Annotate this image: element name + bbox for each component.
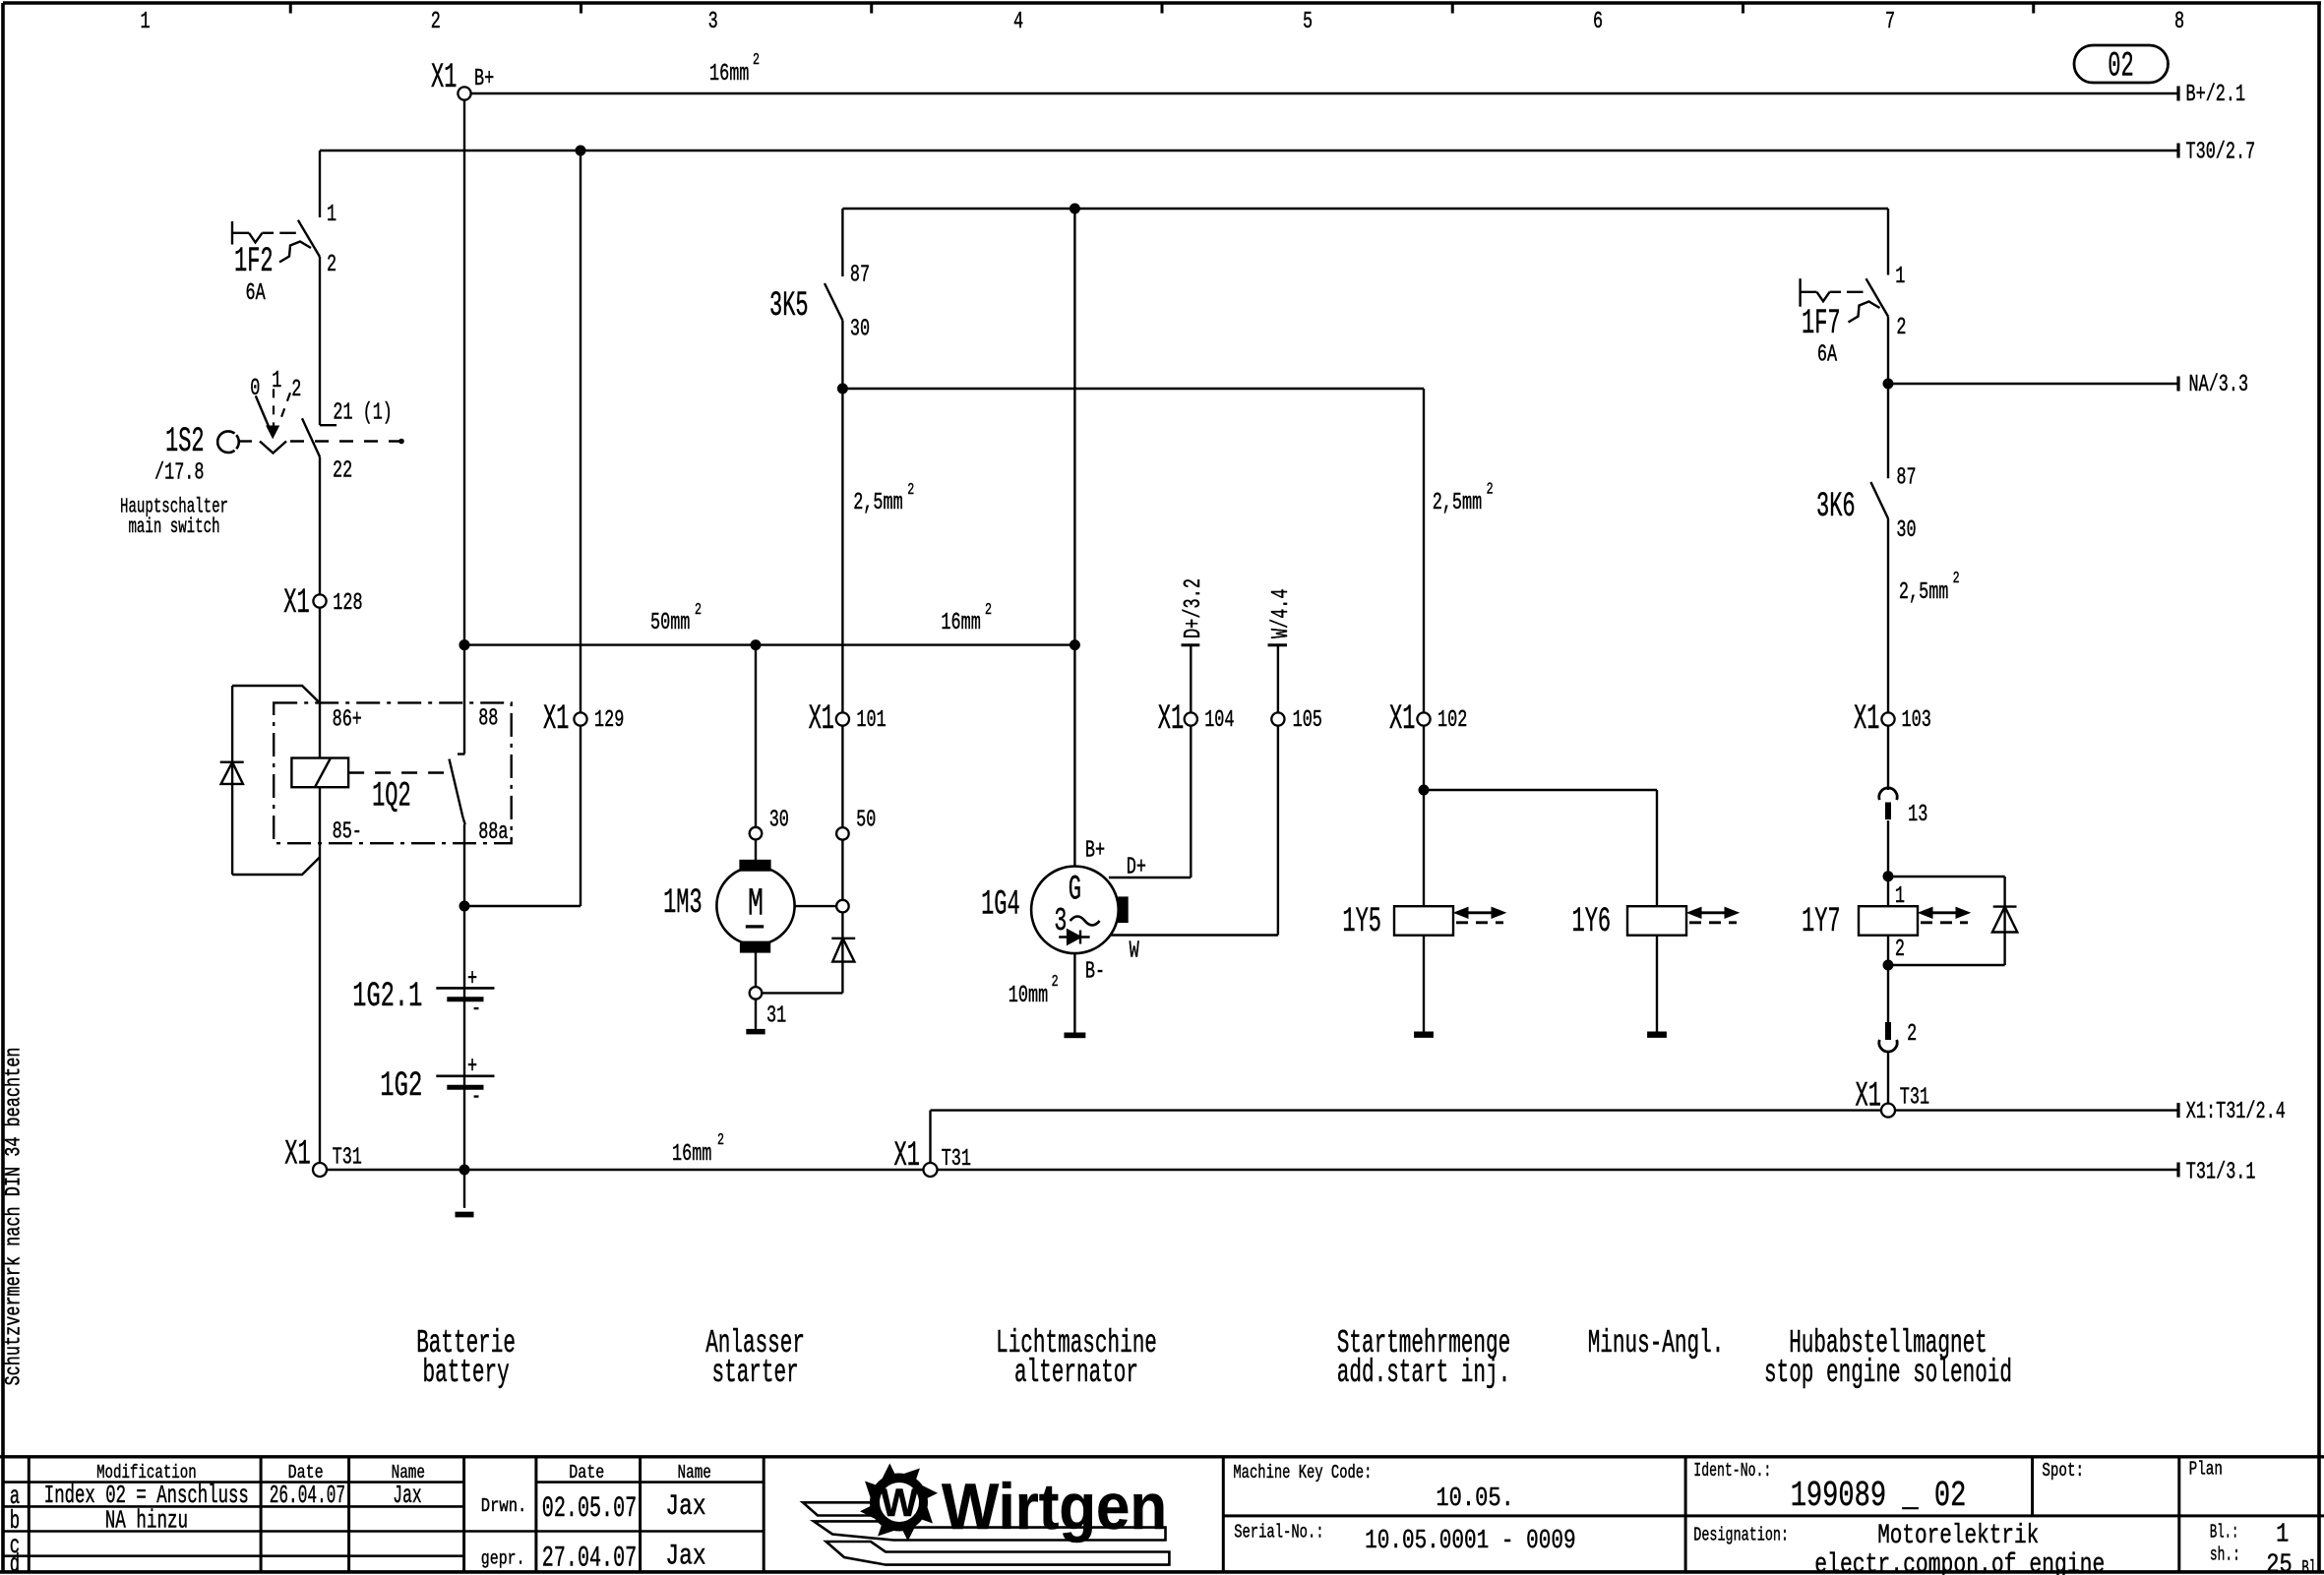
svg-text:1M3: 1M3 bbox=[663, 883, 703, 923]
svg-text:2: 2 bbox=[717, 1131, 724, 1150]
svg-text:T31: T31 bbox=[333, 1145, 362, 1172]
svg-text:d: d bbox=[10, 1549, 20, 1575]
svg-text:02.05.07: 02.05.07 bbox=[542, 1492, 637, 1526]
svg-text:50mm: 50mm bbox=[650, 610, 690, 636]
svg-text:2: 2 bbox=[1907, 1021, 1917, 1048]
svg-text:Name: Name bbox=[678, 1462, 711, 1484]
svg-text:87: 87 bbox=[1896, 465, 1916, 492]
svg-text:Drwn.: Drwn. bbox=[481, 1495, 527, 1517]
svg-text:X1: X1 bbox=[1856, 1077, 1881, 1117]
svg-text:sh.:: sh.: bbox=[2210, 1545, 2240, 1566]
svg-text:4: 4 bbox=[1013, 9, 1023, 35]
svg-text:T30/2.7: T30/2.7 bbox=[2186, 140, 2256, 166]
svg-text:6: 6 bbox=[1593, 9, 1603, 35]
svg-text:1Q2: 1Q2 bbox=[372, 776, 411, 816]
svg-text:starter: starter bbox=[712, 1355, 799, 1391]
svg-text:104: 104 bbox=[1204, 707, 1234, 734]
svg-text:1Y5: 1Y5 bbox=[1342, 902, 1381, 941]
svg-text:-: - bbox=[471, 997, 481, 1023]
svg-text:Minus-Angl.: Minus-Angl. bbox=[1588, 1325, 1725, 1362]
svg-text:129: 129 bbox=[594, 707, 624, 734]
svg-text:Bl.:: Bl.: bbox=[2301, 1557, 2324, 1575]
svg-text:31: 31 bbox=[766, 1003, 786, 1030]
svg-text:3: 3 bbox=[708, 9, 718, 35]
svg-text:2: 2 bbox=[753, 51, 760, 70]
svg-text:50: 50 bbox=[856, 808, 876, 834]
svg-text:10.05.: 10.05. bbox=[1436, 1484, 1514, 1514]
svg-text:26.04.07: 26.04.07 bbox=[270, 1481, 345, 1510]
svg-text:+: + bbox=[467, 1054, 477, 1080]
svg-text:Plan: Plan bbox=[2189, 1459, 2223, 1481]
svg-text:Wirtgen: Wirtgen bbox=[942, 1470, 1167, 1543]
svg-text:-: - bbox=[471, 1084, 481, 1111]
svg-text:1: 1 bbox=[2276, 1521, 2289, 1550]
svg-text:2: 2 bbox=[1895, 937, 1905, 963]
svg-text:gepr.: gepr. bbox=[481, 1548, 525, 1570]
svg-text:2: 2 bbox=[907, 481, 914, 500]
svg-text:1Y6: 1Y6 bbox=[1572, 902, 1612, 941]
svg-text:Motorelektrik: Motorelektrik bbox=[1877, 1521, 2039, 1551]
svg-text:X1: X1 bbox=[543, 699, 569, 739]
svg-text:0: 0 bbox=[250, 376, 260, 402]
svg-text:stop engine solenoid: stop engine solenoid bbox=[1764, 1355, 2012, 1391]
svg-text:6A: 6A bbox=[1817, 342, 1837, 369]
svg-text:D+: D+ bbox=[1127, 855, 1146, 881]
svg-text:25: 25 bbox=[2266, 1551, 2293, 1575]
svg-text:X1: X1 bbox=[431, 58, 457, 97]
svg-text:105: 105 bbox=[1293, 707, 1322, 734]
svg-text:add.start inj.: add.start inj. bbox=[1337, 1355, 1510, 1391]
svg-text:6A: 6A bbox=[246, 280, 266, 307]
svg-text:B-: B- bbox=[1085, 958, 1105, 985]
svg-text:2,5mm: 2,5mm bbox=[853, 490, 903, 516]
svg-text:NA/3.3: NA/3.3 bbox=[2189, 372, 2249, 398]
svg-text:102: 102 bbox=[1437, 707, 1467, 734]
svg-text:27.04.07: 27.04.07 bbox=[542, 1543, 637, 1575]
svg-text:2: 2 bbox=[1487, 481, 1494, 500]
svg-text:103: 103 bbox=[1902, 707, 1931, 734]
svg-text:X1: X1 bbox=[1854, 699, 1879, 739]
svg-text:2: 2 bbox=[291, 377, 301, 403]
svg-text:alternator: alternator bbox=[1014, 1355, 1138, 1391]
svg-text:199089 _ 02: 199089 _ 02 bbox=[1791, 1476, 1967, 1516]
svg-text:86+: 86+ bbox=[333, 707, 362, 734]
svg-text:X1: X1 bbox=[1389, 699, 1415, 739]
svg-text:1F7: 1F7 bbox=[1802, 304, 1841, 343]
svg-text:Designation:: Designation: bbox=[1693, 1525, 1789, 1546]
svg-text:Serial-No.:: Serial-No.: bbox=[1234, 1522, 1323, 1544]
svg-text:2: 2 bbox=[327, 252, 336, 278]
svg-text:10mm: 10mm bbox=[1009, 983, 1048, 1009]
svg-text:X1: X1 bbox=[284, 1135, 310, 1175]
svg-text:1G2.1: 1G2.1 bbox=[352, 977, 422, 1016]
svg-text:X1: X1 bbox=[809, 699, 834, 739]
svg-text:1S2: 1S2 bbox=[165, 422, 205, 461]
svg-text:1: 1 bbox=[141, 9, 151, 35]
svg-text:M: M bbox=[748, 883, 764, 928]
svg-text:X1: X1 bbox=[894, 1136, 920, 1176]
svg-text:85-: 85- bbox=[333, 818, 362, 845]
svg-text:X1: X1 bbox=[283, 583, 309, 623]
svg-text:2,5mm: 2,5mm bbox=[1899, 579, 1949, 606]
svg-text:88a: 88a bbox=[478, 819, 508, 846]
svg-text:W: W bbox=[881, 1482, 918, 1525]
svg-text:101: 101 bbox=[856, 707, 886, 734]
svg-text:Machine Key Code:: Machine Key Code: bbox=[1233, 1462, 1372, 1484]
svg-text:02: 02 bbox=[2108, 47, 2133, 87]
svg-text:1: 1 bbox=[1895, 264, 1905, 290]
svg-text:2: 2 bbox=[1896, 315, 1906, 341]
svg-text:2: 2 bbox=[1953, 570, 1960, 588]
svg-text:87: 87 bbox=[850, 262, 870, 288]
svg-text:16mm: 16mm bbox=[709, 61, 749, 88]
svg-text:13: 13 bbox=[1908, 802, 1927, 828]
svg-text:1F2: 1F2 bbox=[234, 242, 274, 281]
svg-text:16mm: 16mm bbox=[672, 1141, 711, 1168]
svg-text:Date: Date bbox=[569, 1462, 604, 1484]
svg-text:2: 2 bbox=[695, 601, 702, 620]
svg-text:NA hinzu: NA hinzu bbox=[105, 1506, 188, 1536]
svg-text:battery: battery bbox=[423, 1355, 510, 1391]
svg-text:+: + bbox=[467, 966, 477, 993]
svg-text:22: 22 bbox=[333, 458, 352, 485]
svg-text:X1: X1 bbox=[1158, 699, 1184, 739]
svg-text:Schutzvermerk nach DIN 34 beac: Schutzvermerk nach DIN 34 beachten bbox=[2, 1048, 27, 1386]
svg-text:Bl.:: Bl.: bbox=[2210, 1522, 2239, 1544]
svg-text:electr.compon.of engine: electr.compon.of engine bbox=[1814, 1550, 2105, 1575]
svg-text:3: 3 bbox=[1054, 903, 1067, 939]
svg-text:T31: T31 bbox=[942, 1146, 971, 1173]
svg-text:T31/3.1: T31/3.1 bbox=[2186, 1160, 2256, 1186]
svg-text:2: 2 bbox=[1052, 973, 1059, 992]
svg-text:3K5: 3K5 bbox=[769, 286, 809, 326]
svg-text:1G4: 1G4 bbox=[981, 885, 1020, 925]
svg-text:2: 2 bbox=[431, 9, 441, 35]
svg-text:/17.8: /17.8 bbox=[154, 460, 205, 487]
svg-text:88: 88 bbox=[478, 706, 498, 733]
svg-text:16mm: 16mm bbox=[941, 610, 980, 636]
svg-text:G: G bbox=[1069, 870, 1081, 909]
svg-text:T31: T31 bbox=[1900, 1085, 1929, 1112]
svg-text:Jax: Jax bbox=[393, 1481, 421, 1510]
svg-text:1: 1 bbox=[327, 202, 336, 228]
svg-text:1G2: 1G2 bbox=[380, 1066, 422, 1106]
svg-text:128: 128 bbox=[333, 590, 362, 617]
svg-text:21 (1): 21 (1) bbox=[333, 400, 393, 427]
svg-text:Jax: Jax bbox=[665, 1490, 705, 1524]
svg-text:2: 2 bbox=[985, 601, 992, 620]
svg-text:3K6: 3K6 bbox=[1816, 487, 1856, 526]
svg-text:1Y7: 1Y7 bbox=[1802, 902, 1841, 941]
svg-text:5: 5 bbox=[1303, 9, 1313, 35]
svg-text:B+: B+ bbox=[1085, 838, 1105, 865]
svg-text:Spot:: Spot: bbox=[2042, 1460, 2084, 1482]
svg-text:X1:T31/2.4: X1:T31/2.4 bbox=[2186, 1099, 2286, 1125]
svg-text:30: 30 bbox=[769, 808, 789, 834]
svg-text:30: 30 bbox=[850, 316, 870, 342]
svg-text:W: W bbox=[1130, 938, 1139, 964]
svg-text:B+: B+ bbox=[474, 66, 494, 92]
svg-text:B+/2.1: B+/2.1 bbox=[2186, 82, 2246, 108]
svg-text:10.05.0001 - 0009: 10.05.0001 - 0009 bbox=[1365, 1527, 1576, 1556]
svg-text:7: 7 bbox=[1885, 9, 1895, 35]
svg-text:main switch: main switch bbox=[128, 516, 219, 539]
svg-text:8: 8 bbox=[2174, 9, 2184, 35]
svg-text:1: 1 bbox=[272, 368, 281, 394]
svg-text:Jax: Jax bbox=[665, 1541, 705, 1574]
svg-text:D+/3.2: D+/3.2 bbox=[1181, 578, 1207, 638]
svg-text:W/4.4: W/4.4 bbox=[1268, 589, 1295, 639]
svg-text:30: 30 bbox=[1896, 517, 1916, 544]
svg-text:2,5mm: 2,5mm bbox=[1433, 490, 1483, 516]
svg-text:Ident-No.:: Ident-No.: bbox=[1693, 1460, 1771, 1482]
